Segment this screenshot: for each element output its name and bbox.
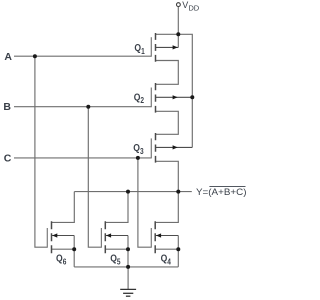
- svg-text:Y=(A+B+C): Y=(A+B+C): [196, 187, 247, 198]
- svg-text:C: C: [4, 152, 12, 164]
- svg-text:A: A: [4, 51, 12, 63]
- svg-text:B: B: [3, 101, 11, 113]
